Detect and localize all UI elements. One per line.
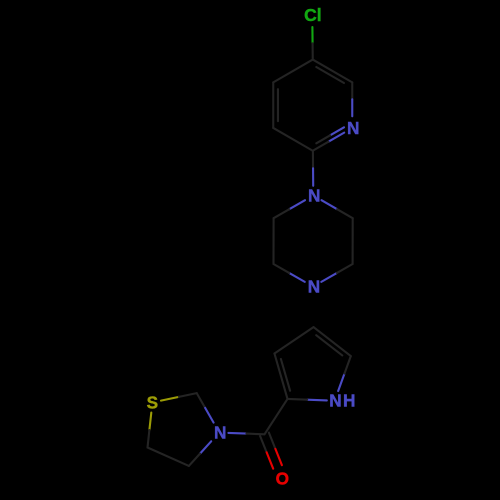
svg-text:N: N — [308, 277, 320, 297]
svg-text:N: N — [329, 391, 341, 411]
svg-text:S: S — [147, 392, 158, 412]
svg-text:H: H — [343, 391, 355, 411]
svg-text:N: N — [214, 422, 226, 442]
svg-text:N: N — [308, 185, 320, 205]
svg-text:N: N — [347, 118, 359, 138]
svg-text:Cl: Cl — [304, 5, 322, 25]
svg-text:O: O — [276, 469, 289, 489]
